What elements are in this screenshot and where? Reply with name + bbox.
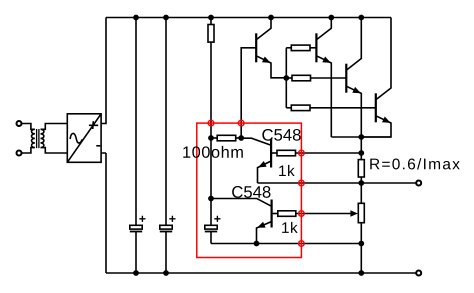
- resistor R1 top vertical: [210, 18, 212, 25]
- transformer TR1 primary winding: [22, 124, 35, 154]
- resistor R3: [286, 47, 291, 49]
- resistor R7 1k: [278, 211, 296, 217]
- transistor Q4 emitter: [361, 116, 391, 137]
- wire Q1 base column: [241, 48, 256, 138]
- transistor Q2 emitter: [316, 56, 331, 137]
- capacitor C3: [205, 225, 217, 229]
- transistor Q6 base lead: [272, 213, 278, 215]
- node Q6 collector: [208, 196, 214, 202]
- red node row2: [299, 180, 305, 186]
- label 100ohm: [183, 146, 243, 158]
- node row4 right: [358, 241, 364, 247]
- label 1k bottom: [282, 222, 298, 233]
- transistor Q6 emitter: [257, 222, 272, 244]
- label C548 top: [262, 129, 300, 141]
- wire R1 down to 100ohm node: [210, 42, 212, 138]
- potentiometer P1: [358, 203, 364, 222]
- red node top left: [208, 120, 214, 126]
- transistor Q5 emitter: [258, 161, 272, 183]
- red node row4: [299, 241, 305, 247]
- wire left vertical from rail to rectifier +: [101, 18, 106, 124]
- node bus right: [358, 270, 364, 276]
- transistor Q4 bar: [375, 93, 377, 122]
- capacitor C2 bottom wire: [165, 232, 167, 274]
- transistor Q2 bar: [315, 33, 317, 62]
- node Q2 collector rail: [328, 15, 334, 21]
- bridge rectifier B1 minus mark: [96, 145, 100, 147]
- wire emitter bus: [331, 136, 391, 138]
- transistor Q5 base lead: [271, 152, 277, 154]
- capacitor C1 top wire: [135, 18, 137, 226]
- red highlight box: [197, 120, 304, 257]
- wire bottom ground bus: [106, 272, 416, 274]
- transformer TR1 secondary winding: [41, 124, 68, 154]
- wire right column upper: [360, 137, 362, 160]
- transistor Q3 bar: [345, 64, 347, 93]
- terminal output plus: [416, 181, 421, 186]
- node C1 bus: [133, 270, 139, 276]
- node row1 junction: [358, 150, 364, 156]
- capacitor C3 bottom wire: [210, 232, 212, 244]
- node 100ohm left: [208, 135, 214, 141]
- wire output plus row: [258, 182, 416, 184]
- node ladder mid: [283, 75, 289, 81]
- transistor Q5 bar: [270, 139, 272, 168]
- node C1 rail: [133, 15, 139, 21]
- wire Q6 base to pot wiper: [296, 213, 353, 215]
- capacitor C2: [160, 225, 172, 229]
- node Q1 collector rail: [268, 15, 274, 21]
- wire pot bottom down: [360, 223, 362, 273]
- terminal output minus: [416, 271, 421, 276]
- transistor Q1 bar: [255, 33, 257, 62]
- transistor Q6 bar: [271, 200, 273, 228]
- capacitor C3 top wire: [210, 138, 212, 225]
- transistor Q1 collector: [256, 18, 271, 40]
- bridge rectifier B1 AC sine symbol: [70, 133, 82, 143]
- terminal AC input top: [17, 121, 22, 126]
- wire ladder vertical: [285, 48, 287, 108]
- transistor Q4 collector: [376, 18, 391, 100]
- bridge rectifier B1 diagonal: [67, 114, 101, 163]
- capacitor C2 top wire: [165, 18, 167, 226]
- red node row3: [299, 211, 305, 217]
- transistor Q3 emitter: [346, 86, 361, 137]
- capacitor C1: [130, 225, 142, 229]
- transistor Q2 collector: [316, 18, 331, 40]
- label C548 bottom: [232, 186, 270, 198]
- red node row1: [299, 150, 305, 156]
- wire row4: [211, 243, 361, 245]
- transistor Q5 collector wire: [241, 138, 271, 145]
- node emitter bus: [358, 134, 364, 140]
- node R row2: [358, 180, 364, 186]
- node C2 bus: [163, 270, 169, 276]
- label 1k top: [279, 165, 295, 176]
- transformer TR1 core: [37, 129, 39, 148]
- wire top supply rail: [106, 17, 391, 19]
- resistor R5: [286, 107, 291, 109]
- wire left vertical from rectifier - to bottom bus: [101, 153, 106, 273]
- resistor R2 100ohm: [211, 137, 217, 139]
- transistor Q3 collector: [346, 18, 361, 71]
- resistor R8 R=0.6/Imax: [358, 160, 364, 177]
- terminal AC input bottom: [17, 151, 22, 156]
- label R=0.6/Imax: [370, 158, 459, 169]
- node Q6 emitter row4: [254, 241, 260, 247]
- capacitor C1 bottom wire: [135, 232, 137, 274]
- node Q3 collector rail: [358, 15, 364, 21]
- node R1 rail: [208, 15, 214, 21]
- transistor Q1 emitter: [256, 56, 286, 78]
- wire R8 to row2: [360, 177, 362, 203]
- bridge rectifier B1 body: [67, 114, 101, 163]
- resistor R6 1k: [277, 150, 296, 156]
- red node top right: [238, 120, 244, 126]
- resistor R4: [286, 77, 292, 79]
- node C2 rail: [163, 15, 169, 21]
- transistor Q6 collector wire: [211, 199, 272, 207]
- node 100ohm right: [238, 135, 244, 141]
- bridge rectifier B1 plus mark: [89, 121, 98, 129]
